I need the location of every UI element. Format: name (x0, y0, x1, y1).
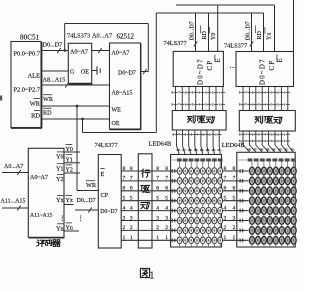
svg-text:D0~D7: D0~D7 (198, 58, 205, 85)
svg-text:1: 1 (156, 235, 159, 241)
svg-text:08-: 08- (177, 148, 181, 152)
svg-text:8: 8 (233, 166, 236, 172)
svg-text:74LS373: 74LS373 (67, 33, 90, 40)
svg-text:P0.0~P0.7: P0.0~P0.7 (13, 50, 40, 57)
wires U3 to coldriver1 (175, 87, 177, 111)
svg-text:7: 7 (130, 176, 133, 182)
svg-text:A0...A7: A0...A7 (92, 33, 112, 40)
svg-text:P2.0~P2.7: P2.0~P2.7 (13, 87, 40, 94)
svg-text:A0~A7: A0~A7 (112, 51, 130, 57)
decoder label (37, 240, 44, 247)
svg-text:A8~A15: A8~A15 (112, 90, 133, 96)
svg-text:5: 5 (233, 196, 236, 202)
wire D bus mid (75, 209, 98, 211)
svg-text:D0...D7: D0...D7 (43, 41, 63, 48)
svg-text:WR: WR (43, 96, 54, 103)
matrix2 box (237, 152, 295, 247)
svg-text:6: 6 (123, 186, 126, 192)
svg-text:1: 1 (123, 235, 126, 241)
matrix1 column wires (179, 162, 181, 248)
wire D-bus into RAM (141, 71, 149, 73)
svg-text:A0~A7: A0~A7 (70, 50, 88, 56)
svg-text:7: 7 (123, 176, 126, 182)
svg-text:02-: 02- (212, 148, 216, 152)
wire ALE to G (41, 70, 68, 72)
wire D-bus riser (64, 24, 66, 51)
svg-text:6: 6 (165, 186, 168, 192)
svg-text:Y0: Y0 (211, 33, 217, 40)
svg-text:8: 8 (123, 166, 126, 172)
svg-text:WR: WR (30, 100, 41, 107)
svg-text:RD: RD (43, 109, 52, 116)
svg-text:6: 6 (233, 186, 236, 192)
svg-text:A11...A15: A11...A15 (1, 198, 26, 204)
svg-text:2: 2 (123, 225, 126, 231)
wire D0-D7 bus (41, 50, 68, 52)
svg-text:A8...A15: A8...A15 (43, 76, 66, 83)
matrix2 LED circles (249, 167, 254, 175)
RAM 62512 box (110, 43, 141, 129)
svg-text:2: 2 (165, 225, 168, 231)
svg-text:CP: CP (207, 60, 214, 71)
wire Y0 drop (217, 5, 219, 51)
svg-text:Y1: Y1 (56, 166, 63, 172)
svg-text:1: 1 (233, 235, 236, 241)
svg-text:OE: OE (112, 121, 120, 127)
svg-text:07-: 07- (182, 148, 186, 152)
svg-text:1: 1 (149, 271, 154, 282)
node D-bus junction (63, 49, 66, 52)
svg-text:2: 2 (233, 225, 236, 231)
svg-text:03-: 03- (278, 147, 282, 151)
svg-text:WR: WR (86, 182, 97, 189)
svg-text:...: ... (230, 61, 236, 70)
wire WR (41, 105, 110, 107)
wire Y top line (176, 4, 275, 6)
svg-text:CP: CP (101, 192, 109, 199)
svg-text:06-: 06- (188, 148, 192, 152)
svg-text:5: 5 (123, 196, 126, 202)
row driver box (138, 154, 152, 248)
svg-text:Y0: Y0 (56, 155, 63, 161)
matrix1 header (172, 159, 221, 161)
tick labels row1b (173, 103, 177, 105)
svg-text:3: 3 (156, 215, 159, 221)
svg-text:RD: RD (257, 30, 263, 39)
wire RD drop 1 (208, 13, 210, 51)
svg-text:LED64B: LED64B (222, 142, 245, 149)
node WR junction (76, 105, 79, 108)
svg-text:E: E (277, 58, 284, 62)
svg-text:LED64B: LED64B (149, 141, 172, 148)
svg-text:2: 2 (130, 225, 133, 231)
svg-text:E: E (101, 171, 105, 178)
svg-text:02-: 02- (285, 147, 289, 151)
tick labels row1c (174, 134, 178, 136)
svg-text:A0~A7: A0~A7 (30, 175, 48, 181)
svg-text:D0~D7: D0~D7 (260, 58, 267, 85)
svg-text:05-: 05- (266, 147, 270, 151)
wire D drop 2 (251, 13, 253, 52)
svg-text:7: 7 (165, 176, 168, 182)
svg-text:G: G (70, 70, 75, 76)
svg-text:E: E (215, 58, 222, 62)
tick labels row1a (173, 91, 177, 93)
svg-text:1: 1 (130, 235, 133, 241)
svg-text:ALE: ALE (28, 73, 41, 80)
decoder box (28, 148, 64, 237)
svg-text:A11~A15: A11~A15 (30, 213, 53, 219)
svg-text:CP: CP (269, 60, 276, 71)
matrix1 LED circles (177, 168, 182, 175)
svg-text:6: 6 (224, 186, 227, 192)
row driver text (142, 169, 150, 177)
caption 图1 (140, 268, 149, 277)
svg-text:5: 5 (224, 196, 227, 202)
svg-text:04-: 04- (200, 148, 204, 152)
wire latch out (92, 50, 110, 52)
svg-text:D0...D7: D0...D7 (190, 21, 196, 40)
matrix2 row drivers H (240, 169, 241, 173)
wire WR drop to CP (76, 106, 78, 191)
svg-text:5: 5 (130, 196, 133, 202)
tick labels row2c (241, 133, 245, 135)
svg-text:2: 2 (224, 225, 227, 231)
wires U4 to coldriver2 (242, 87, 244, 111)
wire RD drop 2 (263, 13, 265, 52)
svg-text:80C51: 80C51 (20, 34, 40, 42)
wire Yx edge (293, 0, 295, 52)
latch U2 box (98, 155, 121, 249)
svg-text:Yx: Yx (56, 198, 63, 204)
svg-text:05-: 05- (194, 148, 198, 152)
matrix1 box (171, 155, 222, 248)
svg-text:06-: 06- (260, 147, 264, 151)
svg-text:D0~D7: D0~D7 (100, 209, 117, 215)
svg-text:4: 4 (130, 205, 133, 211)
MCU 80C51 box (11, 42, 41, 128)
svg-text:4: 4 (156, 205, 159, 211)
wire RD (41, 118, 110, 120)
latch 74LS373 box (68, 43, 91, 83)
svg-text:⋮: ⋮ (78, 215, 85, 222)
svg-text:6: 6 (156, 186, 159, 192)
svg-text:1: 1 (224, 235, 227, 241)
svg-text:08-: 08- (247, 147, 251, 151)
svg-text:04-: 04- (272, 147, 276, 151)
svg-text:Y2: Y2 (56, 177, 63, 183)
svg-text:74LS377: 74LS377 (164, 40, 187, 47)
svg-text:8: 8 (156, 166, 159, 172)
svg-text:D0~D7: D0~D7 (118, 70, 136, 76)
svg-text:2: 2 (156, 225, 159, 231)
svg-text:4: 4 (224, 205, 227, 211)
svg-text:7: 7 (156, 176, 159, 182)
svg-text:07-: 07- (254, 147, 258, 151)
svg-text:Yx: Yx (66, 198, 73, 204)
scan artifact mark (0, 96, 2, 101)
svg-text:8: 8 (165, 166, 168, 172)
svg-text:3: 3 (165, 215, 168, 221)
column driver 1 box (172, 111, 226, 131)
svg-text:1: 1 (165, 235, 168, 241)
svg-text:4: 4 (165, 205, 168, 211)
svg-text:3: 3 (224, 215, 227, 221)
node RD junction (81, 118, 84, 121)
svg-text:D0...D7: D0...D7 (246, 21, 252, 40)
svg-text:03-: 03- (206, 148, 210, 152)
tick labels row2b (241, 103, 245, 105)
matrix2 header (238, 159, 294, 161)
svg-text:6: 6 (130, 186, 133, 192)
row wires (121, 170, 248, 172)
svg-text:WE: WE (112, 107, 122, 113)
svg-text:5: 5 (156, 196, 159, 202)
svg-text:OE: OE (81, 70, 89, 76)
wires coldriver2 to matrix2 (243, 131, 250, 152)
matrix1 row drivers H (172, 169, 173, 173)
svg-text:5: 5 (165, 196, 168, 202)
svg-text:74LS377: 74LS377 (95, 142, 118, 149)
svg-text:8: 8 (130, 166, 133, 172)
column driver 1 text (187, 116, 195, 124)
svg-text:3: 3 (233, 215, 236, 221)
matrix2 column wires (251, 162, 253, 248)
svg-text:RD: RD (31, 112, 40, 119)
svg-text:4: 4 (123, 205, 126, 211)
svg-text:A0...A7: A0...A7 (4, 164, 23, 170)
svg-text:4: 4 (233, 205, 236, 211)
svg-text:62512: 62512 (117, 32, 135, 40)
wire Yx drop (274, 5, 276, 52)
svg-text:3: 3 (123, 215, 126, 221)
svg-text:Yx: Yx (267, 33, 273, 40)
svg-text:01-: 01- (291, 147, 295, 151)
latch U4 box (236, 52, 294, 87)
wire RD drop (82, 119, 84, 133)
tick labels row2a (241, 91, 245, 93)
wire D drop 1 (195, 13, 197, 51)
wire RD riser right (155, 13, 157, 133)
svg-text:74LS377: 74LS377 (224, 42, 247, 49)
column driver 2 box (239, 111, 295, 132)
wires coldriver1 to matrix1 (177, 130, 180, 155)
svg-text:8: 8 (224, 166, 227, 172)
svg-text:Yn: Yn (56, 226, 63, 232)
latch U3 box (173, 51, 223, 86)
column driver 2 text (255, 116, 263, 124)
svg-text:7: 7 (224, 176, 227, 182)
svg-text:7: 7 (233, 176, 236, 182)
ground on OE (92, 70, 97, 72)
wire A8-A15 bus (41, 84, 110, 86)
svg-text:RD: RD (202, 30, 208, 39)
svg-text:D0...D7: D0...D7 (77, 198, 96, 204)
svg-text:3: 3 (130, 215, 133, 221)
svg-text:⋮: ⋮ (59, 215, 66, 222)
